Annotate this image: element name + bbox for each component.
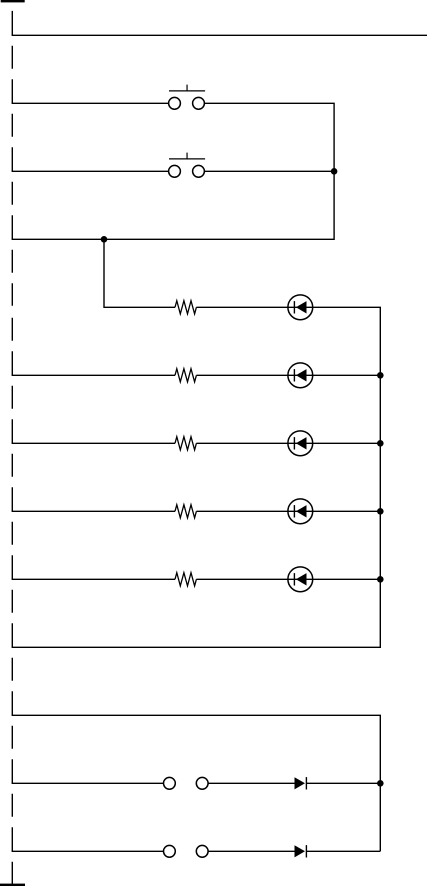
wire: R4 through LED4 to right rail: [196, 510, 380, 512]
pushbutton S1: [169, 85, 206, 110]
wire: pushbutton S1 to right vertical, down to row4 and back to rail: [12, 103, 335, 239]
junction: LED4 row on right rail: [377, 508, 384, 515]
wire: rail to switch S4: [12, 850, 164, 852]
wire: diode D1 to right rail: [306, 782, 380, 784]
wire: R1 to LED1 and right vertical rail down to bottom return: [12, 307, 381, 647]
switch S3: [164, 777, 209, 789]
resistor R2: [175, 369, 196, 382]
wire: top rail to right edge: [12, 34, 427, 36]
wire: switch S3 to diode D1: [208, 782, 295, 784]
LED LED4: [288, 499, 313, 524]
battery positive terminal bar: [1, 0, 25, 2]
wire: pushbutton S2 to right vertical: [204, 170, 334, 172]
LED LED2: [288, 363, 313, 388]
junction: LED5 row on right rail: [377, 576, 384, 583]
junction: LED2 row on right rail: [377, 372, 384, 379]
LED LED3: [288, 431, 313, 456]
resistor R4: [175, 505, 196, 518]
wire: lower feed from rail to right vertical rail: [12, 715, 381, 851]
wire: rail to resistor R2: [12, 374, 175, 376]
resistor R3: [175, 437, 196, 450]
junction: S2 output on right vertical: [331, 168, 338, 175]
pushbutton S2: [169, 153, 206, 178]
junction: row4 tap to LED branch: [101, 236, 108, 243]
resistor R5: [175, 573, 196, 586]
wire: row2 left (rail to pushbutton S1): [12, 102, 169, 104]
wire: switch S4 to diode D2: [208, 850, 295, 852]
LED LED5: [288, 567, 313, 592]
wire: rail to switch S3: [12, 782, 164, 784]
diode D1: [295, 777, 307, 789]
battery negative terminal bar: [0, 884, 25, 886]
wire: R5 through LED5 to right rail: [196, 578, 380, 580]
wire: R3 through LED3 to right rail: [196, 442, 380, 444]
wire: rail to resistor R3: [12, 442, 175, 444]
resistor R1: [175, 301, 196, 314]
junction: LED3 row on right rail: [377, 440, 384, 447]
wire: drop from row4 junction to LED row1: [104, 239, 175, 307]
wire: row3 left (rail to pushbutton S2): [12, 170, 169, 172]
switch S4: [164, 845, 209, 857]
LED LED1: [288, 295, 313, 320]
wire: diode D2 to right rail corner: [306, 850, 380, 852]
wire: R2 through LED2 to right rail: [196, 374, 380, 376]
junction: D1 row on right rail: [377, 780, 384, 787]
wire: rail to resistor R5: [12, 578, 175, 580]
wire: rail to resistor R4: [12, 510, 175, 512]
diode D2: [295, 845, 307, 857]
left power bus (dashed vertical rail): [11, 11, 13, 885]
